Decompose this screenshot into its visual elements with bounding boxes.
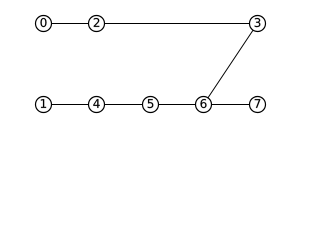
node 3 — [250, 16, 266, 32]
node 5 — [143, 97, 159, 113]
wire edge 1-4 — [44, 104, 97, 106]
node 6 — [196, 97, 212, 113]
node 4 — [89, 97, 105, 113]
wire edge 3-6 — [204, 24, 258, 105]
node 0 — [36, 16, 52, 32]
wire edge 5-6 — [151, 104, 204, 106]
node 1 — [36, 97, 52, 113]
node 7 — [250, 97, 266, 113]
wire edge 4-5 — [97, 104, 151, 106]
wire edge 0-2 — [44, 23, 97, 25]
wire edge 2-3 — [97, 23, 258, 25]
node 2 — [89, 16, 105, 32]
wire edge 6-7 — [204, 104, 258, 106]
graph diagram: two rows of numbered circular nodes joined by black edges — [0, 0, 288, 122]
